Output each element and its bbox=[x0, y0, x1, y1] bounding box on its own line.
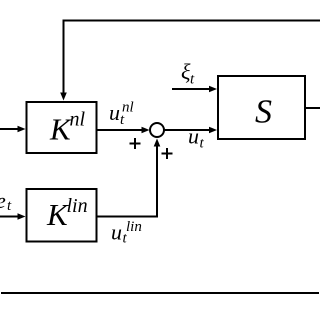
plus sign (K^lin input to junction) bbox=[162, 148, 173, 159]
block S bbox=[218, 76, 305, 139]
wire: top feedback horizontal from output to K^nl bbox=[64, 20, 320, 22]
wire: K^lin output horizontal then up into junction bbox=[98, 145, 158, 217]
plus sign (K^nl input to junction) bbox=[130, 138, 141, 149]
svg-text:lin: lin bbox=[67, 195, 88, 217]
block K^nl bbox=[27, 102, 97, 153]
wire: input arrow into K^nl left bbox=[0, 128, 19, 130]
wire: disturbance xi_t arrow into S bbox=[172, 88, 210, 90]
svg-text:nl: nl bbox=[122, 100, 134, 116]
svg-text:e: e bbox=[0, 188, 6, 213]
svg-text:S: S bbox=[255, 94, 272, 131]
summing junction bbox=[150, 123, 164, 137]
wire: feedback vertical drop into K^nl top bbox=[63, 20, 65, 94]
svg-text:u: u bbox=[109, 100, 120, 125]
svg-text:u: u bbox=[188, 124, 199, 149]
wire: K^nl output to summing junction bbox=[98, 129, 143, 131]
svg-text:lin: lin bbox=[126, 219, 142, 235]
wire: e_t input arrow into K^lin bbox=[0, 216, 19, 218]
svg-text:u: u bbox=[111, 220, 122, 245]
block K^lin bbox=[27, 189, 97, 242]
bottom rule line bbox=[1, 292, 319, 294]
svg-text:nl: nl bbox=[70, 109, 86, 131]
wire: junction output u_t to S bbox=[165, 129, 211, 131]
wire: S output to right edge bbox=[306, 107, 320, 109]
